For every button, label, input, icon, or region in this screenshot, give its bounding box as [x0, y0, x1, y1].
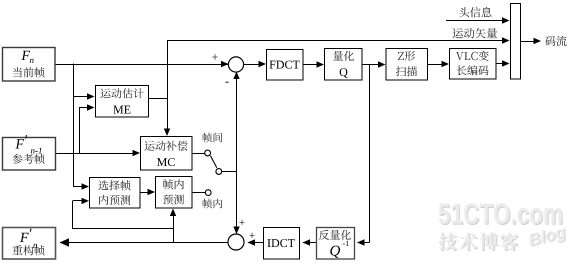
arrow into select-intra input 1 [82, 183, 90, 189]
arrow into adder right [248, 239, 256, 245]
label 长编码 [457, 65, 489, 75]
wire multiplexer to bitstream [521, 41, 538, 43]
box quantizer Q [325, 49, 363, 81]
wire switch pole to prediction trunk [219, 171, 237, 173]
wire branch down from current frame at x=73 [73, 64, 75, 187]
wire adder output to reconstructed frame [60, 242, 230, 244]
label 重构帧 [12, 245, 44, 255]
label IDCT [267, 239, 294, 247]
label motion vector [453, 28, 498, 39]
arrow bitstream output [534, 38, 542, 44]
label 帧内 [163, 179, 184, 189]
wire quantizer to zigzag [362, 64, 382, 66]
label Q [340, 68, 348, 78]
wire inverse quantizer to IDCT [303, 242, 316, 244]
box motion estimation ME [96, 86, 149, 118]
arrow into FDCT [259, 61, 267, 67]
box IDCT [264, 228, 300, 260]
wire reconstruction feed to select-intra [73, 228, 173, 230]
label 帧内 switch [203, 199, 223, 209]
arrow up into subtractor bottom [233, 72, 239, 80]
wire ME output to motion-vector trunk [149, 98, 167, 100]
arrow into intra prediction left [148, 189, 156, 195]
label 预测 [163, 194, 184, 204]
wire reference-frame to MC [56, 153, 137, 155]
label MC [157, 158, 175, 166]
label Fn [21, 51, 30, 60]
wire intra prediction output to intra contact [192, 192, 205, 194]
switch pole circle [216, 169, 222, 175]
wire branch to ME input 1 [73, 96, 91, 98]
label 量化 [333, 51, 354, 61]
switch intra contact circle [205, 190, 211, 196]
box VLC encoder [450, 49, 497, 80]
arrow into zigzag scan [378, 61, 386, 67]
label plus at adder right [249, 233, 254, 238]
wire motion-vector vertical trunk x=167 [167, 40, 169, 133]
watermark Blog [527, 225, 568, 251]
arrow VLC into multiplexer [502, 60, 510, 66]
box inverse quantizer [317, 228, 355, 260]
label bitstream 码流 [545, 36, 566, 46]
label 帧间 [203, 133, 223, 143]
arrow up into intra prediction bottom [170, 209, 176, 217]
arrow into ME input 1 [87, 93, 95, 99]
box FDCT [267, 50, 304, 81]
arrow into VLC [442, 61, 450, 67]
label F'n [20, 233, 29, 242]
label F'n-1 [15, 139, 24, 148]
label 选择帧 [98, 180, 130, 190]
label 运动估计 [101, 88, 144, 98]
box select intra prediction [90, 178, 141, 209]
wire into select-intra input 1 [73, 186, 85, 188]
label Z形 [398, 51, 415, 61]
arrow motion vector into multiplexer [502, 37, 510, 43]
label 扫描 [396, 66, 417, 76]
label FDCT [270, 61, 300, 69]
arrow into reconstructed frame [60, 238, 70, 246]
wire zigzag to VLC [428, 64, 446, 66]
label plus at subtractor [212, 54, 218, 60]
arrow into subtractor left [221, 61, 229, 67]
box zigzag scan [386, 49, 428, 81]
wire subtractor to FDCT [244, 64, 264, 66]
switch blade [210, 156, 216, 168]
wire quantizer output down to inverse quantizer [369, 65, 371, 243]
label minus at subtractor [225, 81, 228, 84]
arrow into quantizer [317, 61, 325, 67]
label 内预测 [99, 195, 130, 205]
label 参考帧 [12, 154, 44, 164]
adder node [228, 234, 244, 250]
wire header info line [446, 20, 506, 22]
wire MC output to inter contact [192, 153, 205, 155]
wire branch up from reference frame to ME input 2 [79, 108, 81, 154]
arrow into ME input 2 [87, 104, 95, 110]
arrow into IDCT right [303, 239, 311, 245]
arrow down into adder top [233, 227, 239, 235]
watermark 技术博客 [438, 232, 519, 251]
label ME [113, 106, 130, 114]
switch inter contact circle [205, 150, 211, 156]
arrow into inverse quantizer right [357, 239, 365, 245]
wire branch up to intra prediction bottom [173, 212, 175, 243]
label 反量化 [319, 230, 351, 240]
label 当前帧 [13, 67, 45, 77]
box multiplexer [511, 4, 521, 80]
label 运动补偿 [145, 141, 188, 151]
arrow into MC left [133, 150, 141, 156]
box reconstructed frame F'n [3, 228, 56, 260]
label VLC变 [456, 51, 489, 61]
box current frame Fn [3, 48, 56, 82]
subtractor node [228, 57, 243, 72]
wire IDCT to adder [248, 242, 263, 244]
box motion compensation MC [141, 137, 193, 171]
wire FDCT to quantizer [303, 64, 320, 66]
arrow into select-intra input 2 [82, 198, 90, 204]
label header info [459, 7, 492, 17]
arrow header info into multiplexer [502, 17, 510, 23]
wire motion vector line to multiplexer [167, 40, 506, 42]
wire select-intra to intra prediction [140, 192, 152, 194]
wire VLC to multiplexer [496, 63, 506, 65]
box reference frame Fn-1 [3, 138, 56, 171]
wire prediction vertical x=236.5 subtractor to adder [236, 75, 238, 232]
watermark 51CTO.com [439, 203, 563, 225]
box intra prediction [156, 177, 193, 209]
label plus at adder top [239, 220, 244, 225]
wire current-frame to subtractor [55, 64, 229, 66]
arrow into MC top [164, 129, 170, 137]
label Q-1 [330, 246, 340, 258]
